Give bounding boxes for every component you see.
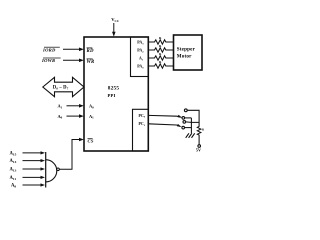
- NAND gate G1 output bubble: [57, 168, 60, 171]
- svg-text:8255: 8255: [108, 86, 120, 92]
- node 5V terminal: [198, 145, 201, 148]
- svg-text:A8: A8: [11, 184, 16, 189]
- svg-text:A13: A13: [10, 168, 17, 173]
- svg-text:IORD: IORD: [42, 47, 56, 52]
- svg-text:A1: A1: [58, 104, 63, 110]
- pin RD label: [87, 49, 94, 54]
- wire IORD to RD: [63, 48, 81, 50]
- pin PA0 label: [137, 65, 144, 70]
- svg-text:IOWR: IOWR: [41, 58, 55, 63]
- svg-text:A0: A0: [89, 104, 94, 110]
- switch contact C: [182, 126, 185, 129]
- wire IOWR to WR: [63, 59, 81, 61]
- wire PA1 to stepper with resistor R: [148, 56, 173, 60]
- pin WR label: [87, 60, 96, 65]
- svg-text:D0 – D7: D0 – D7: [53, 86, 69, 91]
- wire contact C to ground bus: [185, 127, 192, 129]
- wire A11 to gate: [23, 176, 43, 178]
- node A0 (system address): [58, 114, 63, 120]
- wire contact B to pull-up line: [186, 121, 200, 124]
- chip name 8255 PPI: [108, 86, 120, 98]
- node A8 label: [11, 184, 16, 189]
- wire resistor to 5V terminal: [198, 135, 200, 145]
- wire A15 to gate: [23, 152, 43, 154]
- svg-text:A14: A14: [10, 159, 17, 164]
- wire A1 to chip: [67, 105, 81, 107]
- svg-text:WR: WR: [87, 60, 96, 65]
- node A15 label: [10, 152, 17, 157]
- op-amp U1 8255 PPI main body: [84, 37, 148, 151]
- svg-text:PC0: PC0: [139, 114, 146, 119]
- svg-text:RD: RD: [87, 49, 94, 54]
- pin PA3 label: [137, 41, 144, 46]
- node Vcc label: [111, 17, 120, 23]
- wire A14 to gate: [23, 160, 43, 162]
- pin PC0 label: [139, 114, 146, 119]
- svg-text:CS: CS: [88, 139, 94, 144]
- NAND gate G1 body arc: [46, 160, 57, 182]
- pin A1 label: [139, 57, 144, 62]
- svg-text:Stepper: Stepper: [177, 46, 196, 52]
- node IORD label: [42, 47, 56, 52]
- wire NAND output to CS: [59, 140, 81, 170]
- pin A1 label: [89, 114, 94, 120]
- svg-text:PPI: PPI: [108, 93, 116, 98]
- pin PC1 label: [139, 122, 146, 127]
- wire A13 to gate: [23, 168, 43, 170]
- pin A0 label: [89, 104, 94, 110]
- port A group box: [131, 37, 149, 77]
- wire Vcc supply to 8255: [113, 23, 115, 34]
- node IOWR label: [41, 58, 55, 63]
- node A14 label: [10, 159, 17, 164]
- wire PA3 to stepper with resistor R: [148, 40, 173, 44]
- wire PA0 to stepper with resistor R: [148, 64, 173, 68]
- wire ground bus: [190, 118, 192, 133]
- port C group box: [133, 109, 149, 151]
- stepper motor box: [174, 35, 203, 70]
- switch contact B: [183, 121, 186, 124]
- svg-text:5V: 5V: [196, 147, 201, 152]
- svg-text:A15: A15: [10, 152, 17, 157]
- svg-text:Motor: Motor: [177, 54, 192, 60]
- switch contact A: [182, 117, 185, 120]
- svg-text:A1: A1: [89, 114, 94, 120]
- resistor R pull-up: [197, 127, 201, 136]
- wire contact A to ground bus: [185, 117, 192, 119]
- node A11 label: [10, 176, 17, 181]
- NAND gate G1 (address decoder) input bar: [45, 152, 47, 188]
- wire A8 to gate: [23, 184, 43, 186]
- pin PA2 label: [137, 49, 144, 54]
- wire A0 to chip: [67, 115, 81, 117]
- node A1 (system address): [58, 104, 63, 110]
- wire PC1 to switch SW2: [148, 124, 180, 127]
- svg-text:A11: A11: [10, 176, 17, 181]
- wire contact T to pull-up line: [187, 110, 199, 127]
- wire PC0 to switch SW1: [148, 115, 180, 117]
- data bus D0-D7 double arrow: [43, 77, 84, 96]
- wire PA2 to stepper with resistor R: [148, 48, 173, 52]
- switch contact T (to 5V): [184, 109, 187, 112]
- ground symbol: [186, 133, 189, 138]
- node A13 label: [10, 168, 17, 173]
- svg-text:A0: A0: [58, 114, 63, 120]
- pin CS label: [88, 139, 94, 144]
